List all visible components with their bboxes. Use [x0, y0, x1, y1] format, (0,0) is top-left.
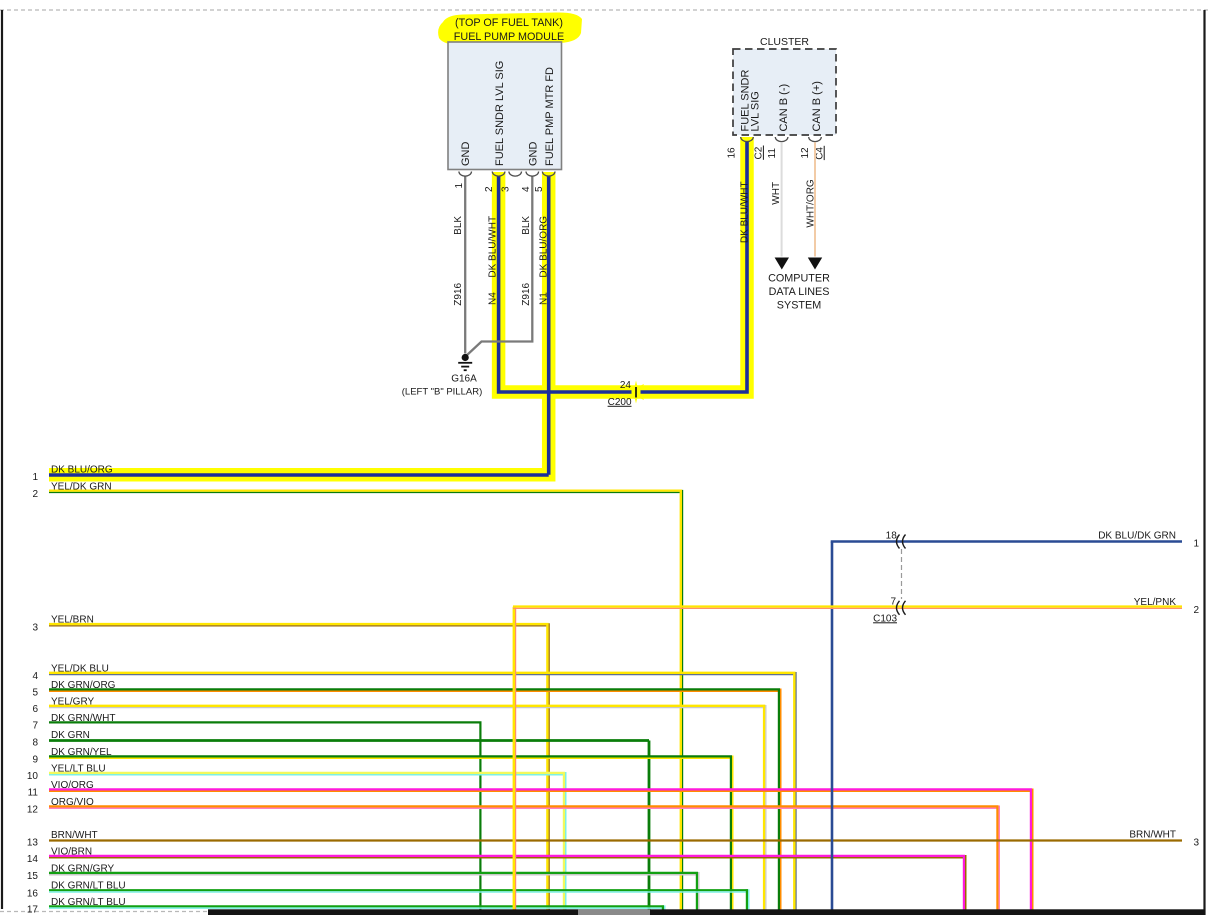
svg-text:Z916: Z916 — [453, 282, 464, 305]
wire 10 YEL/LT BLU vertical drop at x=565 — [563, 772, 565, 910]
wire 3 YEL/BRN horizontal — [49, 623, 549, 625]
wire 11 VIO/ORG horizontal — [49, 788, 1032, 790]
fuel pump module title highlight — [438, 12, 582, 44]
svg-text:DK GRN/ORG: DK GRN/ORG — [51, 680, 116, 691]
bottom bar gray segment — [578, 909, 650, 915]
svg-text:15: 15 — [27, 871, 39, 882]
svg-text:N4: N4 — [487, 292, 498, 305]
svg-text:DK BLU/ORG: DK BLU/ORG — [51, 464, 113, 475]
wire DK BLU/ORG yellow highlight (pin5 to left edge wire 1) — [49, 172, 549, 475]
wire 11 VIO/ORG vertical drop at x=1032 — [1030, 789, 1032, 911]
svg-text:8: 8 — [32, 738, 38, 749]
wire 3 YEL/BRN vertical drop at x=548.6 — [546, 623, 548, 910]
svg-text:YEL/DK GRN: YEL/DK GRN — [51, 481, 112, 492]
svg-text:24: 24 — [620, 380, 632, 391]
wire 5 DK GRN/ORG horizontal — [49, 688, 780, 690]
module pin arc 5 — [542, 172, 555, 177]
svg-text:GND: GND — [460, 142, 472, 167]
module pin arc 1 — [459, 172, 472, 177]
svg-text:C2: C2 — [754, 146, 765, 159]
svg-text:DK BLU/WHT: DK BLU/WHT — [740, 181, 751, 243]
wire 15 DK GRN/GRY horizontal — [49, 872, 698, 874]
arrow to computer data lines (WHT) — [775, 258, 789, 270]
wire DK BLU/DK GRN horizontal to right edge — [831, 540, 1182, 543]
svg-text:ORG/VIO: ORG/VIO — [51, 797, 94, 808]
svg-text:WHT/ORG: WHT/ORG — [805, 179, 816, 228]
svg-text:5: 5 — [534, 186, 545, 192]
svg-text:VIO/ORG: VIO/ORG — [51, 780, 94, 791]
svg-text:YEL/DK BLU: YEL/DK BLU — [51, 663, 109, 674]
svg-text:3: 3 — [1193, 838, 1199, 849]
svg-text:2: 2 — [484, 186, 495, 192]
page bottom dashed border (left of black bar) — [0, 911, 208, 913]
svg-text:DK BLU/ORG: DK BLU/ORG — [539, 216, 550, 278]
page left border — [1, 10, 3, 909]
wire 8 DK GRN horizontal — [49, 739, 649, 742]
wire DK BLU/DK GRN vertical (x=832) — [831, 542, 834, 911]
svg-text:6: 6 — [32, 704, 38, 715]
wire WHT — [781, 142, 783, 256]
svg-text:DK GRN/LT BLU: DK GRN/LT BLU — [51, 897, 126, 908]
svg-text:9: 9 — [32, 755, 38, 766]
svg-text:DK GRN/GRY: DK GRN/GRY — [51, 863, 114, 874]
svg-text:5: 5 — [32, 688, 38, 699]
wire 9 DK GRN/YEL vertical drop at x=732 — [730, 756, 732, 911]
svg-text:1: 1 — [1193, 539, 1199, 550]
wire YEL/PNK vertical (x=515) — [513, 607, 515, 910]
cluster pin arc 11 — [775, 137, 788, 142]
svg-text:FUEL SNDR LVL SIG: FUEL SNDR LVL SIG — [494, 61, 506, 166]
svg-text:CAN B (-): CAN B (-) — [778, 84, 790, 132]
svg-text:G16A: G16A — [451, 373, 477, 384]
wire 1 DK BLU/ORG horizontal (navy core) — [49, 473, 549, 477]
wire BLK pin4 segment — [467, 176, 533, 356]
svg-text:DK GRN/YEL: DK GRN/YEL — [51, 747, 112, 758]
svg-text:1: 1 — [454, 183, 465, 189]
svg-text:12: 12 — [800, 147, 811, 159]
svg-text:1: 1 — [32, 472, 38, 483]
cluster pin arc 12 — [809, 137, 822, 142]
svg-text:YEL/GRY: YEL/GRY — [51, 696, 94, 707]
svg-text:DK GRN: DK GRN — [51, 730, 90, 741]
svg-text:DATA LINES: DATA LINES — [769, 286, 830, 298]
svg-text:2: 2 — [32, 489, 38, 500]
connector C103 pin 7 marks — [897, 601, 900, 615]
svg-text:COMPUTER: COMPUTER — [768, 273, 830, 285]
wire 6 YEL/GRY vertical drop at x=765.3 — [763, 705, 765, 910]
wire 7 DK GRN/WHT horizontal — [49, 721, 482, 723]
svg-text:DK BLU/WHT: DK BLU/WHT — [487, 216, 498, 278]
wire 16 DK GRN/LT BLU horizontal — [49, 889, 748, 891]
module pin arc 3 — [509, 172, 522, 177]
svg-text:BLK: BLK — [521, 216, 532, 235]
svg-text:DK GRN/WHT: DK GRN/WHT — [51, 713, 115, 724]
svg-text:4: 4 — [521, 186, 532, 192]
svg-text:C200: C200 — [608, 397, 632, 408]
svg-text:C103: C103 — [873, 613, 897, 624]
svg-text:YEL/PNK: YEL/PNK — [1134, 597, 1177, 608]
wire 12 ORG/VIO vertical drop at x=998.5 — [996, 806, 998, 911]
wire 15 DK GRN/GRY vertical drop at x=698 — [696, 872, 698, 910]
fuel pump module box — [448, 42, 562, 170]
svg-text:WHT: WHT — [771, 182, 782, 205]
arrow to computer data lines (WHT/ORG) — [808, 258, 822, 270]
svg-text:YEL/BRN: YEL/BRN — [51, 615, 94, 626]
svg-text:18: 18 — [886, 530, 898, 541]
svg-text:(TOP OF FUEL TANK): (TOP OF FUEL TANK) — [455, 17, 563, 29]
svg-text:11: 11 — [28, 788, 39, 799]
wire 10 YEL/LT BLU horizontal — [49, 772, 565, 774]
wire BLK pin1 to ground — [464, 176, 466, 354]
module pin arc 2 — [492, 172, 505, 177]
svg-text:14: 14 — [27, 854, 39, 865]
connector C103 pin 18 marks — [897, 535, 900, 549]
svg-text:4: 4 — [32, 671, 38, 682]
ground symbol — [458, 362, 472, 364]
wire WHT/ORG — [814, 142, 816, 256]
svg-text:7: 7 — [32, 721, 38, 732]
wire 4 YEL/DK BLU vertical drop at x=795.5 — [793, 672, 795, 910]
svg-text:(LEFT "B" PILLAR): (LEFT "B" PILLAR) — [402, 387, 482, 398]
svg-text:3: 3 — [32, 623, 38, 634]
svg-text:YEL/LT BLU: YEL/LT BLU — [51, 763, 106, 774]
svg-text:DK BLU/DK GRN: DK BLU/DK GRN — [1098, 531, 1176, 542]
wire DK BLU/WHT yellow highlight (pin2 to cluster pin16 via C200) — [499, 137, 747, 392]
wire 5 DK GRN/ORG vertical drop at x=780 — [778, 689, 780, 911]
ground junction dot G16A — [462, 354, 469, 361]
wire 8 DK GRN vertical drop at x=649 — [648, 741, 651, 911]
wire 7 DK GRN/WHT vertical drop at x=481.5 — [479, 722, 481, 911]
yellow starburst at C200 — [628, 381, 644, 404]
wire 12 ORG/VIO horizontal — [49, 805, 999, 807]
wire 9 DK GRN/YEL horizontal — [49, 755, 732, 757]
svg-text:N1: N1 — [539, 292, 550, 305]
wire YEL/PNK horizontal to right edge — [513, 605, 1182, 607]
wire 14 VIO/BRN vertical drop at x=965 — [963, 855, 965, 910]
wire 2 YEL/DK GRN horizontal — [49, 490, 682, 492]
wire 13 BRN/WHT horizontal — [49, 839, 1182, 841]
wire 16 DK GRN/LT BLU vertical drop at x=748 — [746, 889, 748, 910]
wire DK BLU/WHT navy core (pin2-C200-cluster16) — [499, 176, 632, 393]
svg-text:CAN B (+): CAN B (+) — [811, 81, 823, 131]
svg-text:GND: GND — [527, 142, 539, 167]
svg-text:SYSTEM: SYSTEM — [777, 300, 821, 312]
page right border — [1203, 10, 1205, 915]
svg-text:3: 3 — [501, 186, 512, 192]
svg-text:BLK: BLK — [453, 216, 464, 235]
svg-text:BRN/WHT: BRN/WHT — [1129, 830, 1176, 841]
svg-text:BRN/WHT: BRN/WHT — [51, 830, 98, 841]
svg-text:16: 16 — [27, 889, 39, 900]
svg-text:LVL SIG: LVL SIG — [750, 91, 762, 131]
svg-text:11: 11 — [767, 148, 778, 159]
wire 14 VIO/BRN horizontal — [49, 855, 965, 857]
svg-text:17: 17 — [27, 905, 39, 915]
cluster box — [733, 49, 836, 135]
svg-text:7: 7 — [890, 596, 896, 607]
svg-text:12: 12 — [27, 805, 39, 816]
wire 6 YEL/GRY horizontal — [49, 705, 765, 707]
module pin arc 4 — [526, 172, 539, 177]
cluster pin arc 16 — [741, 137, 754, 142]
wire 17 DK GRN/LT BLU horizontal — [49, 905, 664, 907]
bottom black bar — [208, 909, 1205, 915]
svg-text:Z916: Z916 — [521, 282, 532, 305]
svg-text:10: 10 — [27, 771, 39, 782]
wire 4 YEL/DK BLU horizontal — [49, 672, 796, 674]
svg-text:16: 16 — [727, 147, 738, 159]
wire 2 YEL/DK GRN vertical drop at x=682 — [680, 490, 682, 910]
connector C103 dashed link line — [901, 549, 903, 599]
svg-text:CLUSTER: CLUSTER — [760, 36, 809, 48]
page top dashed border — [0, 9, 1210, 11]
connector C200 tick — [635, 387, 637, 398]
svg-text:FUEL PMP MTR FD: FUEL PMP MTR FD — [544, 67, 556, 166]
svg-text:DK GRN/LT BLU: DK GRN/LT BLU — [51, 881, 126, 892]
svg-text:2: 2 — [1193, 605, 1199, 616]
svg-text:13: 13 — [27, 838, 39, 849]
wire DK BLU/ORG navy core vertical (pin5 down) — [547, 176, 551, 475]
svg-text:VIO/BRN: VIO/BRN — [51, 846, 92, 857]
wire 17 DK GRN/LT BLU vertical drop at x=664 — [662, 905, 664, 910]
